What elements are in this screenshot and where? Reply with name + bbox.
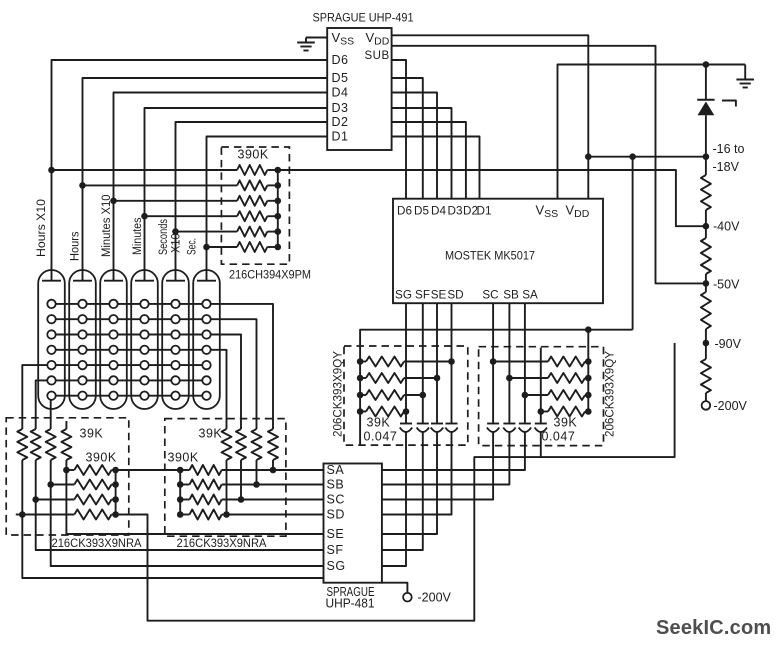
resistor 390K R6 (216CH394X9PM) — [237, 242, 267, 252]
node 390K rail junction — [275, 244, 282, 251]
resistor R divider -18 to -40 — [701, 175, 711, 210]
tube V3 cathode pin row 3 — [109, 330, 117, 338]
wire right NRA 39K c lead — [256, 460, 258, 485]
wire left NRA 39K c to SG bus — [51, 460, 324, 566]
svg-text:D1: D1 — [332, 130, 349, 144]
tube V2 cathode pin row 2 — [78, 315, 86, 323]
wire U3 substrate to -200V terminal — [382, 583, 408, 593]
wire left NRA rail — [115, 470, 117, 515]
wire tube 2 grid lead to U1 D5 — [83, 78, 328, 281]
wire tube 4 grid lead to U1 D3 — [145, 108, 328, 281]
resistor 39K left NRA d — [61, 429, 71, 460]
svg-text:D3: D3 — [332, 101, 349, 115]
wire to 390K rail — [267, 169, 278, 171]
node SC 39K tap — [490, 358, 497, 365]
svg-text:39K: 39K — [367, 416, 391, 430]
node SE 39K tap — [434, 375, 441, 382]
svg-text:SB: SB — [327, 478, 345, 492]
wire to 390K rail — [267, 184, 278, 186]
tube V1 cathode pin row 2 — [47, 315, 55, 323]
wire MK5017 SB down through cap to U3 staircase — [508, 303, 510, 423]
svg-text:39K: 39K — [199, 427, 223, 441]
svg-text:SA: SA — [327, 463, 345, 477]
wire cathode row 7 to left 39K c — [51, 396, 207, 429]
svg-text:-18V: -18V — [713, 160, 740, 174]
tube V3 cathode pin row 2 — [109, 315, 117, 323]
svg-text:Minutes: Minutes — [132, 217, 144, 255]
tube V4 cathode pin row 1 — [140, 300, 148, 308]
svg-text:D4: D4 — [431, 205, 446, 218]
svg-text:0.047: 0.047 — [364, 430, 398, 444]
wire U1 D4 to MK5017 D4 — [392, 93, 437, 199]
node left NRA rail row 4 — [112, 511, 119, 518]
resistor R divider -40 to -50 — [701, 238, 711, 274]
resistor 39K right NRA a — [222, 429, 232, 460]
wire right NRA 39K d lead — [272, 460, 274, 470]
node -50V — [703, 280, 710, 287]
stub left NRA row4 to box edge — [16, 514, 22, 516]
wire cathode row 6 to left 39K b — [36, 380, 207, 429]
tube V4 grid bar — [135, 280, 154, 282]
wire MK5017 SE down through cap to U3 staircase — [436, 303, 438, 423]
wire U1 D6 to MK5017 D6 — [392, 60, 406, 199]
resistor 39K left pack row 3 — [357, 392, 364, 399]
tube V4 cathode pin row 3 — [140, 330, 148, 338]
svg-text:216CK393X9NRA: 216CK393X9NRA — [177, 536, 267, 550]
wire right NRA 39K b lead — [240, 460, 242, 500]
node 390K rail junction — [275, 198, 282, 205]
wire to 390K rail — [267, 246, 278, 248]
wire MK5017 VSS to ground — [558, 65, 746, 199]
node 39K a / row4 — [223, 511, 230, 518]
tube V5 cathode pin row 2 — [171, 315, 179, 323]
svg-text:D6: D6 — [397, 205, 412, 218]
wire cathode row 1 to right 39K d — [52, 304, 274, 429]
wire left NRA common to right NRA rail — [116, 469, 181, 471]
resistor 39K left NRA b — [31, 429, 41, 460]
tube V3 cathode pin row 5 — [109, 361, 117, 369]
svg-text:390K: 390K — [238, 148, 269, 162]
svg-text:-90V: -90V — [715, 337, 742, 351]
svg-text:D5: D5 — [414, 205, 429, 218]
wire -16/-18V rail — [588, 156, 706, 158]
wire 4th cap line to -90V bus — [540, 348, 542, 424]
svg-text:-40V: -40V — [713, 220, 740, 234]
svg-text:MOSTEK MK5017: MOSTEK MK5017 — [445, 249, 535, 263]
wire tube 3 grid to 390K R3 — [114, 200, 238, 202]
tube V4 cathode pin row 4 — [140, 346, 148, 354]
svg-text:SeekIC.com: SeekIC.com — [656, 617, 771, 639]
node tube 6 grid junction — [203, 244, 210, 251]
module 216CK393X9NRA left dashed box — [6, 418, 129, 535]
wire tube 4 grid to 390K R4 — [145, 215, 238, 217]
svg-text:SD: SD — [447, 289, 463, 302]
wire U1 D3 to MK5017 D3 — [392, 108, 452, 199]
ground G1 at U1 VSS — [306, 37, 327, 39]
wire U1 D2 to MK5017 D2 — [392, 122, 466, 199]
wire MK5017 SF down through cap to U3 staircase — [422, 303, 424, 423]
display tube V4 — [131, 270, 158, 409]
wire U1 D5 to MK5017 D5 — [392, 78, 423, 199]
resistor 390K right NRA row 2 and wire to U3 SB — [177, 481, 184, 488]
resistor 39K left NRA a — [17, 429, 27, 460]
svg-text:0.047: 0.047 — [542, 430, 576, 444]
terminal -200V (rail) — [702, 401, 711, 410]
resistor 39K left pack row 4 — [357, 408, 364, 415]
tube V6 cathode pin row 4 — [202, 346, 210, 354]
module 216CH394X9PM dashed box — [221, 147, 289, 264]
node SD 39K tap — [448, 358, 455, 365]
svg-text:D1: D1 — [477, 205, 492, 218]
display tube V5 — [162, 270, 189, 409]
node rail at x632 — [629, 153, 636, 160]
svg-text:D2: D2 — [332, 115, 349, 129]
svg-text:SE: SE — [431, 289, 447, 302]
svg-text:Seconds: Seconds — [158, 219, 170, 255]
svg-text:390K: 390K — [86, 451, 117, 465]
resistor 39K right pack row 4 — [541, 411, 548, 413]
tube V6 cathode pin row 3 — [202, 330, 210, 338]
tube V5 cathode pin row 3 — [171, 330, 179, 338]
driver U1 SPRAGUE UHP-491 box — [327, 28, 391, 150]
wire right cap rail — [587, 330, 589, 413]
wire left NRA 39K a to bus4 — [22, 460, 323, 578]
resistor R divider -50 to -90 — [701, 292, 711, 329]
svg-text:39K: 39K — [80, 427, 104, 441]
wire MK5017 SG down through cap to U3 staircase — [405, 303, 407, 423]
wire tube 2 grid to 390K R2 — [83, 184, 238, 186]
tube V1 cathode pin row 3 — [47, 330, 55, 338]
tube V1 cathode pin row 1 — [47, 300, 55, 308]
tube V3 cathode pin row 7 — [109, 392, 117, 400]
svg-text:Minutes X10: Minutes X10 — [101, 195, 113, 258]
mark corner tick near diode — [722, 101, 736, 107]
stub 39K d top lead — [65, 421, 67, 429]
svg-text:-16 to: -16 to — [713, 142, 745, 156]
tube V3 cathode pin row 4 — [109, 346, 117, 354]
tube V1 cathode pin row 5 — [47, 361, 55, 369]
wire U1 D1 to MK5017 D1 — [392, 137, 480, 199]
tube V6 cathode pin row 6 — [202, 376, 210, 384]
wire to 390K rail — [267, 215, 278, 217]
resistor 390K left NRA row 4 — [22, 514, 74, 516]
resistor 39K right NRA b — [236, 429, 246, 460]
display tube V2 — [69, 270, 96, 409]
clock chip U2 MOSTEK MK5017 box — [393, 199, 603, 304]
tube V5 cathode pin row 6 — [171, 376, 179, 384]
node SF 39K tap — [420, 392, 427, 399]
svg-text:206CK393X9QY: 206CK393X9QY — [331, 351, 345, 437]
tube V2 grid bar — [73, 280, 92, 282]
node left NRA rail row 1 — [112, 467, 119, 474]
svg-text:206CK393X9QY: 206CK393X9QY — [603, 351, 617, 437]
resistor 39K right pack row 3 — [525, 394, 548, 396]
tube V1 cathode pin row 6 — [47, 376, 55, 384]
wire tube 3 grid lead to U1 D4 — [114, 93, 328, 281]
node 39K c / 390K row2 — [47, 481, 54, 488]
tube V4 cathode pin row 6 — [140, 376, 148, 384]
tube V3 grid bar — [104, 280, 123, 282]
node 39K d / row1 — [270, 467, 277, 474]
svg-text:Hours: Hours — [70, 231, 82, 261]
wire MK5017 SD down through cap to U3 staircase — [451, 303, 453, 423]
driver U3 SPRAGUE UHP-481 box — [324, 464, 382, 583]
tube V1 cathode pin row 4 — [47, 346, 55, 354]
resistor 39K right pack row 1 — [493, 361, 548, 363]
svg-text:D5: D5 — [332, 71, 349, 85]
svg-text:-50V: -50V — [713, 278, 740, 292]
tube V1 grid bar — [42, 280, 61, 282]
node SA 39K tap — [522, 392, 529, 399]
module 206CK393X9QY right dashed box — [479, 347, 604, 446]
tube V6 cathode pin row 1 — [202, 300, 210, 308]
tube V6 cathode pin row 7 — [202, 392, 210, 400]
svg-text:SB: SB — [503, 289, 519, 302]
node -90V — [703, 340, 710, 347]
node -16 to -18V — [703, 153, 710, 160]
node left NRA rail row 2 — [112, 481, 119, 488]
tube V3 cathode pin row 1 — [109, 300, 117, 308]
wire left NRA 39K b to SF bus — [36, 460, 324, 550]
node SG 39K tap — [403, 408, 410, 415]
wire tube 5 grid lead to U1 D2 — [176, 122, 328, 281]
svg-text:SF: SF — [415, 289, 430, 302]
wire tube 1 grid lead to U1 D6 — [52, 60, 328, 281]
tube V1 cathode pin row 7 — [47, 392, 55, 400]
tube V4 cathode pin row 7 — [140, 392, 148, 400]
resistor 390K left NRA row 1 — [66, 469, 74, 471]
svg-text:SF: SF — [327, 543, 344, 557]
module 216CK393X9NRA right dashed box — [165, 419, 286, 537]
resistor R divider -90 to -200 — [701, 359, 711, 393]
wire tube 6 grid lead to U1 D1 — [207, 137, 328, 281]
svg-text:SG: SG — [327, 559, 346, 573]
tube V4 cathode pin row 2 — [140, 315, 148, 323]
tube V6 cathode pin row 2 — [202, 315, 210, 323]
resistor 39K right NRA c — [252, 429, 262, 460]
node tube 3 grid junction — [110, 198, 117, 205]
ground G2 top right — [744, 65, 746, 80]
wire to 390K rail — [267, 231, 278, 233]
resistor 390K left NRA row 3 — [36, 499, 75, 501]
node 390K rail junction — [275, 228, 282, 235]
wire MK5017 SC down through cap to U3 staircase — [492, 303, 494, 423]
tube V5 cathode pin row 5 — [171, 361, 179, 369]
node tube 1 grid junction — [48, 167, 55, 174]
resistor 390K R2 (216CH394X9PM) — [237, 180, 267, 190]
svg-text:D4: D4 — [332, 86, 349, 100]
svg-text:-200V: -200V — [714, 399, 748, 413]
tube V5 cathode pin row 7 — [171, 392, 179, 400]
node 39K b / 390K row3 — [32, 496, 39, 503]
tube V5 cathode pin row 4 — [171, 346, 179, 354]
wire cathode row 4 to right 39K a — [52, 350, 227, 429]
resistor 39K left pack row 1 — [357, 358, 364, 365]
wire cathode row 5 to left 39K a — [22, 365, 206, 429]
resistor 39K right pack row 2 — [509, 377, 548, 379]
svg-text:SC: SC — [482, 289, 498, 302]
svg-text:UHP-481: UHP-481 — [326, 597, 375, 611]
node 39K b / row3 — [238, 496, 245, 503]
tube V2 cathode pin row 3 — [78, 330, 86, 338]
resistor 39K right NRA d — [268, 429, 278, 460]
wire 390K rail to -40V tap — [278, 170, 706, 226]
node 39K d / 390K row1 — [63, 467, 70, 474]
wire cathode row 2 to right 39K c — [52, 319, 257, 429]
tube V3 cathode pin row 6 — [109, 376, 117, 384]
node diode-ground junction — [703, 61, 710, 68]
wire 390K common rail — [277, 170, 279, 247]
display tube V6 — [193, 270, 220, 409]
node tube 2 grid junction — [79, 182, 86, 189]
resistor 390K right NRA row 3 and wire to U3 SC — [177, 496, 184, 503]
wire left NRA row4 to -90V loop — [116, 343, 675, 621]
wire U1 VDD to -16V rail and MK5017 VDD — [392, 35, 589, 198]
svg-text:D3: D3 — [448, 205, 463, 218]
tube V2 cathode pin row 5 — [78, 361, 86, 369]
svg-text:SUB: SUB — [365, 50, 390, 62]
resistor 390K right NRA row 4 and wire to U3 SD — [177, 511, 184, 518]
resistor 390K R5 (216CH394X9PM) — [237, 227, 267, 237]
wire right NRA rail — [179, 470, 181, 515]
svg-text:SPRAGUE UHP-491: SPRAGUE UHP-491 — [313, 11, 414, 25]
node 390K rail junction — [275, 167, 282, 174]
node bias bus to right cap rail — [585, 326, 592, 333]
wire tube 1 grid to 390K R1 — [52, 169, 238, 171]
svg-text:SD: SD — [327, 508, 345, 522]
svg-text:216CH394X9PM: 216CH394X9PM — [229, 268, 311, 282]
wire to 390K rail — [267, 200, 278, 202]
terminal -200V (U3) — [403, 593, 412, 602]
wire bias bus y330 — [360, 330, 632, 445]
node 4th line row4 tap — [538, 408, 545, 415]
tube V6 grid bar — [197, 280, 216, 282]
wire right NRA 39K a lead — [226, 460, 228, 515]
svg-text:390K: 390K — [168, 451, 199, 465]
tube V2 cathode pin row 7 — [78, 392, 86, 400]
node VDD / -16V rail — [585, 153, 592, 160]
tube V2 cathode pin row 1 — [78, 300, 86, 308]
node 39K c / row2 — [253, 481, 260, 488]
tube V5 grid bar — [166, 280, 185, 282]
node 390K rail junction — [275, 213, 282, 220]
tube V4 cathode pin row 5 — [140, 361, 148, 369]
tube V2 cathode pin row 6 — [78, 376, 86, 384]
node 390K rail junction — [275, 182, 282, 189]
node tube 4 grid junction — [141, 213, 148, 220]
svg-text:D6: D6 — [332, 53, 349, 67]
wire U1 SUB to -50V tap — [392, 46, 706, 284]
resistor 390K R4 (216CH394X9PM) — [237, 211, 267, 221]
svg-text:-200V: -200V — [418, 591, 452, 605]
resistor 390K R1 (216CH394X9PM) — [237, 165, 267, 175]
wire MK5017 SA down through cap to U3 staircase — [524, 303, 526, 423]
svg-text:Sec.: Sec. — [187, 238, 199, 255]
node left NRA rail row 3 — [112, 496, 119, 503]
tube V6 cathode pin row 5 — [202, 361, 210, 369]
wire -16V rail drop to bias bus — [632, 157, 634, 330]
node SB 39K tap — [506, 375, 513, 382]
resistor 39K left NRA c — [46, 429, 56, 460]
resistor 390K R3 (216CH394X9PM) — [237, 196, 267, 206]
svg-text:216CK393X9NRA: 216CK393X9NRA — [52, 536, 142, 550]
svg-text:SA: SA — [522, 289, 538, 302]
svg-text:SC: SC — [327, 493, 345, 507]
tube V2 cathode pin row 4 — [78, 346, 86, 354]
wire left NRA 39K d to SE bus — [66, 460, 323, 534]
display tube V3 — [100, 270, 127, 409]
svg-text:X10: X10 — [171, 233, 183, 253]
module 206CK393X9QY left dashed box — [344, 346, 468, 445]
svg-text:Hours X10: Hours X10 — [36, 199, 48, 257]
resistor 390K right NRA row 1 and wire to U3 SA — [177, 467, 184, 474]
node -40V — [703, 223, 710, 230]
wire tube 6 grid to 390K R6 — [207, 246, 238, 248]
svg-text:SG: SG — [395, 289, 412, 302]
node tube 5 grid junction — [172, 228, 179, 235]
node 39K a / 390K row4 — [19, 511, 26, 518]
wire tube 5 grid to 390K R5 — [176, 231, 238, 233]
wire cathode row 3 to right 39K b — [52, 335, 242, 430]
display tube V1 — [38, 270, 65, 409]
diode D1 (clamp) — [705, 65, 707, 100]
tube V5 cathode pin row 1 — [171, 300, 179, 308]
svg-text:39K: 39K — [554, 416, 578, 430]
svg-text:SE: SE — [327, 527, 345, 541]
resistor 39K left pack row 2 — [357, 375, 364, 382]
resistor 390K left NRA row 2 — [51, 484, 75, 486]
